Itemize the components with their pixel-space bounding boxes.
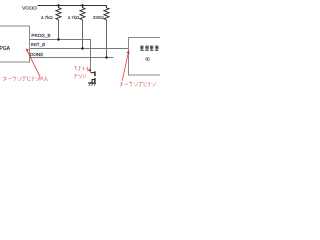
node junction INIT_B-R2: [81, 47, 83, 49]
wire PROG_B net: [30, 40, 91, 73]
wire INIT_B net to supervisor IC: [30, 48, 129, 50]
power supervisor IC U2 box: [129, 38, 169, 76]
svg-text:330Ω: 330Ω: [93, 15, 105, 20]
node junction PROG_B-R1: [57, 38, 59, 40]
annotation text button (red, katakana): [74, 74, 86, 78]
annotation text reset (red, katakana): [74, 66, 88, 71]
svg-text:INIT_B: INIT_B: [31, 42, 45, 47]
svg-text:4.7kΩ: 4.7kΩ: [68, 15, 81, 20]
resistor R2 4.7k pull-up on INIT_B: [80, 6, 85, 20]
node junction rail-R1: [57, 4, 59, 6]
resistor R1 4.7k pull-up on PROG_B: [56, 6, 61, 20]
power supervisor IC label (kanji): [140, 46, 158, 51]
node junction DONE-R3: [105, 56, 107, 58]
svg-text:VCCIO: VCCIO: [22, 6, 37, 11]
annotation arrow to INIT_B/DONE open-drain pins (red): [26, 48, 40, 76]
switch SW1 reset push-button: [91, 71, 95, 83]
annotation text open-drain (red, katakana, right): [120, 82, 156, 87]
wire R1 bottom to PROG_B line: [58, 20, 60, 40]
wire R3 bottom to DONE line: [106, 20, 108, 58]
FPGA U1 box: [0, 26, 30, 62]
wire VCCIO rail: [38, 6, 107, 9]
annotation text open-drain output (red, katakana): [3, 76, 48, 81]
resistor R3 330 pull-up on DONE: [104, 8, 109, 20]
wire DONE net: [30, 57, 114, 59]
svg-text:DONE: DONE: [30, 52, 43, 57]
node junction rail-R2: [81, 4, 83, 6]
svg-text:4.7kΩ: 4.7kΩ: [41, 15, 54, 20]
ground: [88, 83, 96, 86]
svg-text:PROG_B: PROG_B: [31, 33, 50, 38]
annotation arrow to supervisor open-drain output (red): [122, 50, 129, 80]
wire R2 bottom to INIT_B line: [82, 20, 84, 49]
annotation arrow to reset switch (red): [87, 69, 91, 72]
svg-text:FPGA: FPGA: [0, 46, 11, 52]
svg-text:IC: IC: [146, 57, 151, 62]
